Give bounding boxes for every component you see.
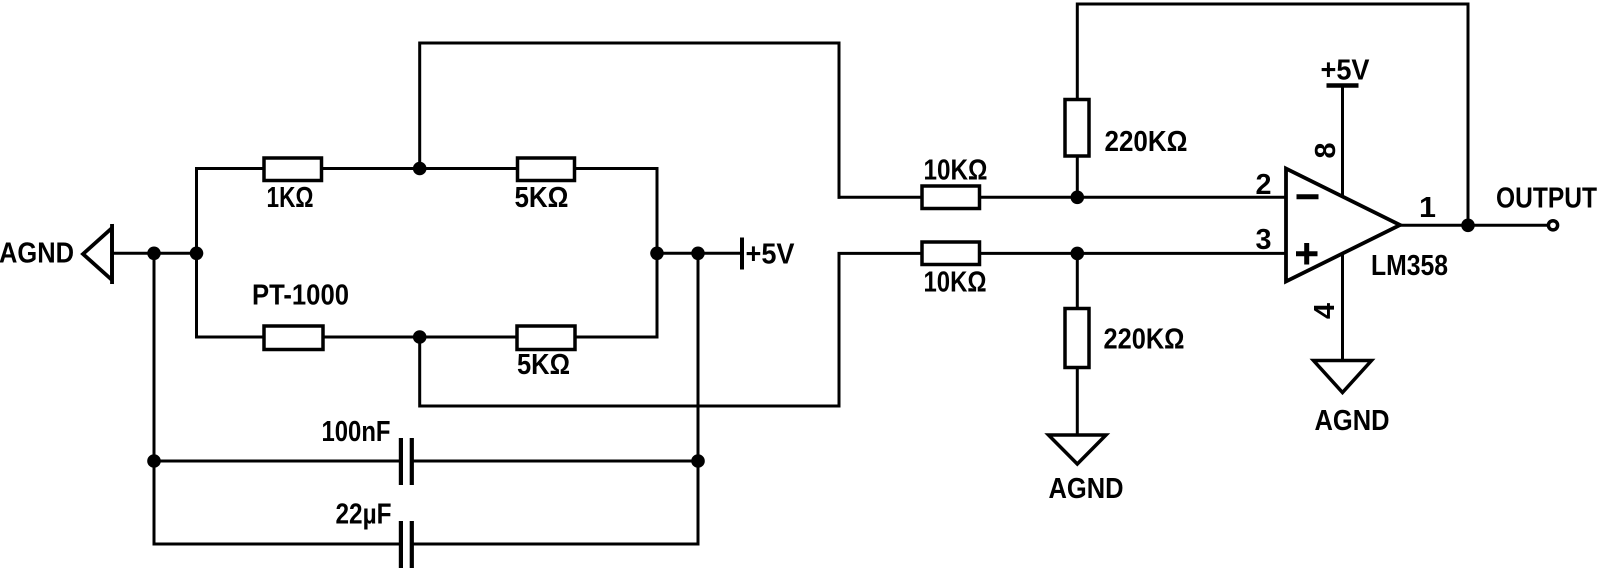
wire bridge bottom rail [197, 336, 658, 339]
wire bridge left rail [195, 169, 198, 338]
wire 22uF row left [154, 543, 399, 546]
node bridge right / +5V [650, 247, 664, 261]
svg-text:LM358: LM358 [1371, 250, 1448, 282]
wire bridge right rail [656, 169, 659, 338]
node 100nF left [147, 454, 161, 468]
node inverting input / 220K [1071, 191, 1085, 205]
node junction dots [147, 162, 1475, 468]
svg-text:4: 4 [1309, 303, 1341, 319]
ground AGND left arrow symbol [83, 224, 112, 284]
wire left capacitor branch [153, 253, 156, 544]
op-amp plus sign [1296, 243, 1318, 265]
svg-text:100nF: 100nF [322, 416, 391, 448]
resistor R3 5K ohm bottom box [517, 326, 575, 350]
svg-text:+5V: +5V [1321, 55, 1371, 87]
svg-text:OUTPUT: OUTPUT [1496, 183, 1597, 215]
svg-text:1: 1 [1419, 192, 1436, 224]
svg-text:5KΩ: 5KΩ [515, 182, 569, 214]
svg-text:5KΩ: 5KΩ [517, 349, 570, 381]
node bridge top mid [413, 162, 427, 176]
wire pin 4 to AGND [1341, 245, 1344, 362]
svg-text:AGND: AGND [1049, 473, 1124, 505]
svg-text:10KΩ: 10KΩ [924, 267, 987, 299]
wire feedback from output node up and over to 220K top [1077, 4, 1468, 225]
svg-text:+5V: +5V [746, 239, 796, 271]
wire pin 8 from +5V bar [1341, 86, 1344, 206]
wire inverting input row [839, 196, 1286, 199]
node output / feedback [1461, 219, 1475, 233]
wire bridge bottom-mid node down and over to non-inverting input row [420, 253, 1286, 406]
output terminal circle [1548, 221, 1557, 230]
wire 100nF row right [414, 460, 698, 463]
op-amp minus sign [1297, 194, 1319, 199]
wire 100nF row left [154, 460, 399, 463]
svg-text:8: 8 [1310, 143, 1342, 159]
resistor R5 10K ohm lower box [922, 242, 980, 265]
svg-text:10KΩ: 10KΩ [924, 155, 988, 187]
svg-text:3: 3 [1256, 224, 1272, 256]
wire right capacitor branch [697, 253, 700, 544]
wire bridge top rail [197, 167, 658, 170]
wire AGND to bridge left node [112, 252, 197, 255]
resistor R6 220K ohm upper box [1065, 100, 1089, 157]
power +5V bar at op-amp [1327, 83, 1359, 88]
node 100nF right [691, 454, 705, 468]
wire bridge top-mid node up and over to inverting input row [420, 43, 839, 197]
resistor R4 10K ohm upper box [922, 186, 980, 209]
node non-inverting input / 220K [1071, 247, 1085, 261]
svg-text:1KΩ: 1KΩ [267, 182, 314, 214]
capacitor C2 22uF plates [401, 521, 412, 568]
svg-text:AGND: AGND [0, 238, 74, 270]
wire 22uF row right [414, 543, 698, 546]
svg-text:2: 2 [1256, 169, 1272, 201]
svg-text:22µF: 22µF [336, 499, 392, 531]
svg-text:AGND: AGND [1315, 405, 1390, 437]
wire lower 220K branch to AGND [1076, 253, 1079, 436]
svg-text:PT-1000: PT-1000 [252, 280, 349, 312]
node bridge left / AGND [147, 247, 161, 261]
svg-text:220KΩ: 220KΩ [1105, 126, 1188, 158]
resistor R2 5K ohm top box [518, 158, 575, 181]
power +5V bar at bridge [740, 238, 744, 270]
svg-text:220KΩ: 220KΩ [1104, 324, 1185, 356]
op-amp U1 LM358 triangle [1286, 169, 1400, 282]
resistor PT-1000 box [264, 326, 323, 350]
ground AGND below op-amp pin 4 [1314, 361, 1372, 393]
capacitor C1 100nF plates [401, 438, 412, 485]
ground AGND below lower 220K [1049, 435, 1107, 464]
wire bridge right node to +5V [657, 252, 742, 255]
resistor R1 1K ohm box [264, 158, 322, 181]
wire output [1400, 224, 1547, 227]
resistor R7 220K ohm lower box [1065, 309, 1089, 368]
node bridge bottom mid [413, 330, 427, 344]
